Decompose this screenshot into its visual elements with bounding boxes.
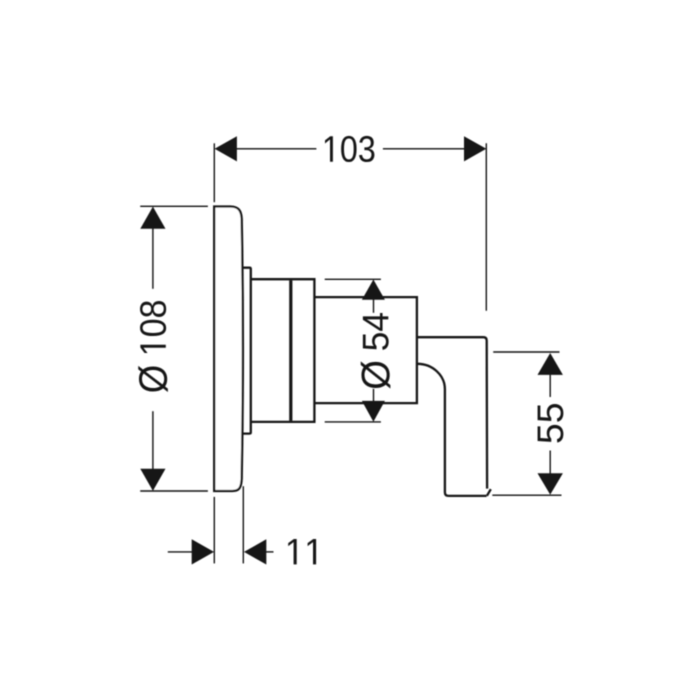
dim Ø108: top arrow [140,207,165,229]
sleeve groove line [289,280,292,421]
dim 55: bottom arrow [538,473,563,494]
dim 55: bottom extension line [492,494,561,496]
dim 103: right extension line [485,143,487,310]
dim 55: top extension line [493,351,559,353]
dim 11: left extension line [213,497,215,564]
dim 11: left leader line [168,551,193,553]
dim Ø108: top extension line [140,205,208,207]
dim Ø54: top extension line [325,278,381,280]
dim 103: value label [325,136,374,162]
valve sleeve Ø54 outline [251,279,315,422]
dim 103: right arrow [464,136,486,161]
dim 103: dimension line segments [237,148,317,150]
dim 103: left arrow [215,136,237,161]
dim Ø108: bottom arrow [140,469,165,491]
dim 11: right leader line [266,551,274,553]
dim Ø54: dimension line segments [373,299,375,312]
dim Ø108: bottom extension line [140,490,208,492]
dim 55: value label [538,404,564,443]
dim 11: value label [288,539,316,564]
dim Ø108: value label [138,301,168,392]
dim 11: right arrow [244,539,266,564]
dim Ø108: dimension line segments [152,228,154,288]
dim 11: left arrow [192,539,214,564]
dim Ø54: bottom arrow [362,401,385,422]
dim 103: left extension line [213,143,215,202]
dim 55: dimension line segments [549,375,551,397]
dim Ø54: top arrow [362,280,385,300]
escutcheon dome [214,207,243,492]
cartridge cylinder [314,297,417,403]
dim Ø54: bottom extension line [325,421,381,423]
escutcheon collar ring [242,268,251,434]
dim 55: top arrow [538,353,563,375]
lever handle outline [417,337,491,496]
dim 11: right extension line [242,486,244,563]
dim Ø54: value label [361,313,391,389]
